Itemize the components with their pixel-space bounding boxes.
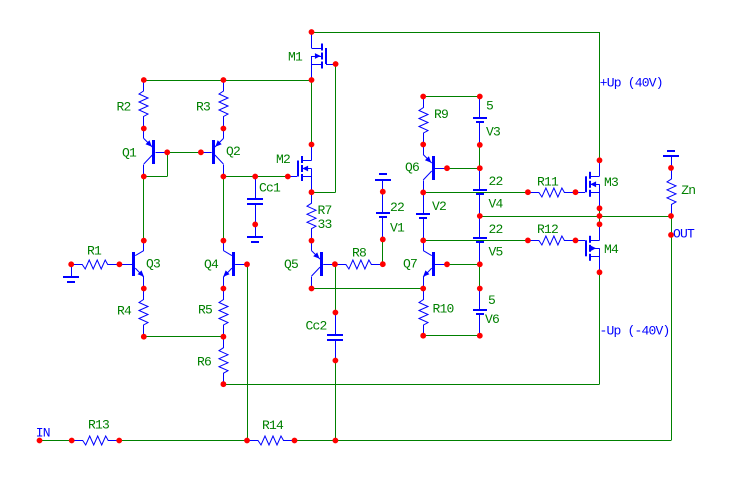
node V1 top (380, 189, 386, 195)
node R4 bottom (141, 334, 147, 340)
wire Q4 base column down to R14 (247, 264, 249, 440)
ground under Cc1 (255, 224, 257, 236)
resistor R14 (247, 436, 295, 445)
node V3 top (477, 94, 483, 100)
node M4 source (597, 269, 603, 275)
svg-text:Q3: Q3 (146, 257, 160, 272)
wire Q1 collector down to Q3 (143, 177, 145, 241)
svg-text:R6: R6 (197, 355, 211, 370)
node Cc2 bottom (333, 358, 339, 364)
node V4 bottom (477, 213, 483, 219)
svg-text:Cc2: Cc2 (306, 319, 327, 334)
resistor R11 (528, 188, 576, 197)
svg-text:5: 5 (488, 293, 495, 308)
capacitor Cc1 (255, 177, 257, 199)
svg-text:V4: V4 (489, 197, 504, 212)
node M2 drain (309, 142, 315, 148)
node R2/Q1 (141, 126, 147, 132)
node R13 right (116, 438, 122, 444)
resistor R8 (335, 260, 383, 269)
node Cc1 top (252, 174, 258, 180)
svg-text:R10: R10 (433, 302, 454, 317)
resistor R12 (528, 236, 576, 245)
wire M2 source to gate loop corner (312, 192, 336, 194)
ground above V1 (382, 180, 384, 192)
mosfet M3 (N-ch, gate left) (599, 160, 601, 176)
transistor Q3 (NPN) (132, 252, 135, 276)
svg-text:+Up (40V): +Up (40V) (600, 76, 663, 91)
resistor R2 (139, 80, 148, 128)
wire Q1 base to Q2 base (167, 152, 201, 154)
wire V1 bottom down to R8 (382, 239, 384, 264)
transistor Q5 (PNP) (320, 252, 323, 276)
svg-text:Q6: Q6 (405, 160, 419, 175)
node R3 top (221, 77, 227, 83)
node Q6 base (444, 165, 450, 171)
node R1 left (68, 261, 74, 267)
wire Q1 base tie to collector (144, 176, 167, 178)
battery V2 (22) (423, 192, 425, 213)
node Zn bottom (668, 213, 674, 219)
battery V3 (5) (479, 97, 481, 118)
node R3/Q2 (221, 126, 227, 132)
wire V4 bottom to OUT node rail (480, 216, 671, 218)
svg-text:R2: R2 (117, 100, 131, 115)
node V6 top (477, 286, 483, 292)
node R13 left (69, 438, 75, 444)
node R6 bottom (221, 381, 227, 387)
node Q4 base (244, 261, 250, 267)
svg-text:22: 22 (489, 174, 503, 189)
wire rail R2/R3 tops to M1 source (144, 80, 312, 82)
svg-text:Q4: Q4 (204, 257, 219, 272)
wire Q1 base down (167, 152, 169, 176)
svg-text:Cc1: Cc1 (259, 181, 281, 196)
battery V1 (22) (382, 192, 384, 213)
node Q2 base (198, 149, 204, 155)
svg-text:33: 33 (318, 217, 332, 232)
battery V4 (22) (479, 168, 481, 189)
wire Q2 collector to Cc1 and M2 gate (223, 176, 287, 178)
svg-text:V2: V2 (432, 199, 446, 214)
svg-text:R13: R13 (88, 418, 109, 433)
wire Q2 collector down to Q4 (223, 177, 225, 241)
svg-text:R8: R8 (352, 246, 366, 261)
wire M1 gate loop down (335, 64, 337, 192)
svg-text:Zn: Zn (681, 183, 695, 198)
wire M3 source to OUT rail to M4 drain (599, 208, 601, 224)
resistor R1 (71, 260, 119, 269)
node Q1 base (164, 149, 170, 155)
node R2 top (141, 77, 147, 83)
node V4 top (477, 165, 483, 171)
wire Q5 emitter to Q7 emitter (312, 288, 424, 290)
ground at R1 input (71, 264, 73, 276)
wire Q7 base to V5/V6 node (447, 264, 480, 266)
wire -Up rail horizontal to R6 bottom (223, 384, 599, 386)
node Q2 collector (221, 174, 227, 180)
wire bottom feedback/input line (40, 440, 672, 442)
node R7/Q5 (309, 238, 315, 244)
resistor R4 (139, 289, 148, 337)
resistor R9 (419, 97, 428, 145)
node M3 source (597, 205, 603, 211)
ground above Zn (671, 156, 673, 168)
svg-text:Q5: Q5 (284, 257, 298, 272)
svg-text:R12: R12 (537, 222, 558, 237)
wire M1 source column down to M2 drain (311, 80, 313, 145)
wire IN stub covered by resistors R13/R14 - white gaps (72, 439, 119, 442)
node R12 right / M4 gate (573, 238, 579, 244)
node Zn top (668, 165, 674, 171)
node Q1 collector (141, 174, 147, 180)
svg-text:V3: V3 (486, 125, 500, 140)
node M1 gate (333, 61, 339, 67)
svg-text:R3: R3 (196, 100, 210, 115)
resistor R13 (72, 436, 120, 445)
wire Q6 emitter to R11 through V4 (423, 192, 528, 194)
svg-text:R11: R11 (537, 175, 559, 190)
capacitor Cc2 (335, 313, 337, 335)
svg-text:M3: M3 (604, 175, 618, 190)
svg-text:V5: V5 (489, 245, 503, 260)
node R14 right (292, 438, 298, 444)
battery V5 (22) (479, 216, 481, 237)
transistor Q1 (PNP) (152, 140, 155, 164)
svg-text:M4: M4 (604, 242, 619, 257)
node OUT junction (597, 213, 603, 219)
node Q4 emitter / R5 top (221, 286, 227, 292)
svg-text:R9: R9 (434, 107, 448, 122)
wire OUT column down (671, 216, 673, 441)
mosfet M4 (P-ch, gate left) (599, 224, 601, 240)
svg-text:V6: V6 (485, 312, 499, 327)
svg-text:M1: M1 (288, 50, 303, 65)
node R12 left (525, 238, 531, 244)
node V6 bottom (477, 333, 483, 339)
node V1 bottom (380, 237, 386, 243)
svg-text:Q2: Q2 (226, 144, 240, 159)
wire V3 bottom to V4 top (479, 145, 481, 168)
svg-text:R14: R14 (262, 418, 284, 433)
node R11 left (525, 189, 531, 195)
node Q5 base / R8 left (332, 261, 338, 267)
wire -Up rail from M4 down (599, 272, 601, 384)
wire R4 bottom to R5 bottom (144, 336, 224, 338)
mosfet M1 (N-ch, gate right) (311, 32, 313, 48)
wire top +Up rail (312, 32, 600, 34)
node Cc1 bottom (252, 222, 258, 228)
resistor R10 (419, 289, 428, 337)
svg-text:R4: R4 (117, 304, 132, 319)
node R1/Q3 base (117, 261, 123, 267)
resistor R5 (219, 289, 228, 337)
wire V5 bottom down to V6 top (479, 264, 481, 288)
transistor Q6 (PNP) (432, 156, 435, 180)
svg-text:Q1: Q1 (122, 146, 137, 161)
wire +Up rail down right side (599, 32, 601, 160)
node R8 right (380, 261, 386, 267)
svg-text:-Up (-40V): -Up (-40V) (600, 324, 670, 339)
svg-text:R5: R5 (198, 303, 212, 318)
wire Q6 base to V3/V4 node (447, 168, 480, 170)
resistor Zn (667, 168, 676, 216)
node Cc2 top (333, 310, 339, 316)
transistor Q7 (NPN) (432, 252, 435, 276)
wire Q7 collector to R12 through V5 (423, 240, 528, 242)
node Q3 emitter / R4 top (141, 286, 147, 292)
transistor Q2 (PNP) (212, 140, 215, 164)
resistor R3 (219, 80, 228, 128)
svg-text:V1: V1 (390, 221, 405, 236)
node Q5 collector (309, 286, 315, 292)
svg-text:R7: R7 (318, 203, 332, 218)
node R10 bottom (420, 333, 426, 339)
node M3 drain (597, 157, 603, 163)
node OUT anchor (668, 232, 674, 238)
svg-text:R1: R1 (87, 244, 102, 259)
wire Q5 base down to Cc2 (335, 264, 337, 312)
node IN port (37, 438, 43, 444)
transistor Q4 (NPN) (232, 252, 235, 276)
node M2 source (309, 189, 315, 195)
node R5/R6 (221, 334, 227, 340)
node Q7 base (444, 261, 450, 267)
node R9 top (420, 94, 426, 100)
node M1 source (309, 77, 315, 83)
node Q4 top (221, 238, 227, 244)
svg-text:5: 5 (486, 99, 493, 114)
resistor R6 (219, 337, 228, 385)
node R14 left / Q4 base column (244, 438, 250, 444)
node V5 bottom (477, 261, 483, 267)
node Q6 emitter / V2 top (420, 190, 426, 196)
svg-text:22: 22 (390, 200, 404, 215)
node V2 bottom / Q7 top (420, 238, 426, 244)
svg-text:IN: IN (36, 426, 50, 441)
wire R9/V3 top rail (423, 96, 480, 98)
svg-text:M2: M2 (276, 152, 290, 167)
svg-text:Q7: Q7 (403, 257, 417, 272)
node Q3 top (141, 238, 147, 244)
wire Cc2 bottom down to feedback line (335, 361, 337, 441)
mosfet M2 (N-ch, gate left) (311, 145, 313, 161)
node R11 right / M3 gate (573, 189, 579, 195)
node Cc2 column / bottom line (333, 438, 339, 444)
battery V6 (5) (479, 289, 481, 310)
node M1 drain / +Up rail (309, 29, 315, 35)
node V3 bottom (477, 142, 483, 148)
node M4 drain (597, 221, 603, 227)
node Q7 emitter / R10 top (420, 286, 426, 292)
svg-text:22: 22 (489, 222, 503, 237)
wire R10 bottom to V6 bottom (423, 335, 480, 337)
node R9/Q6 (420, 142, 426, 148)
node M2 gate (285, 174, 291, 180)
resistor R7 (307, 192, 316, 240)
svg-text:OUT: OUT (673, 227, 695, 242)
